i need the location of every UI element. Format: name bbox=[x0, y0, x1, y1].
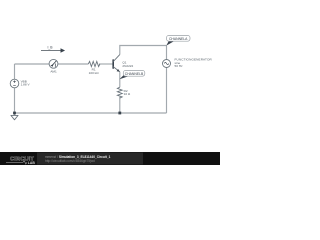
svg-text:50 Hz: 50 Hz bbox=[175, 64, 184, 68]
svg-text:http://circuitlab.com/c/8546gb: http://circuitlab.com/c/8546gb75jwd bbox=[45, 159, 95, 163]
svg-text:10 Ω: 10 Ω bbox=[124, 92, 131, 96]
svg-text:100 kΩ: 100 kΩ bbox=[89, 71, 100, 75]
svg-text:CHANNELB: CHANNELB bbox=[125, 72, 144, 76]
svg-text:CHANNELA: CHANNELA bbox=[169, 37, 188, 41]
svg-text:FUNCTIONGENERATOR: FUNCTIONGENERATOR bbox=[175, 58, 213, 62]
svg-text:1.88 V: 1.88 V bbox=[21, 83, 31, 87]
svg-text:LAB: LAB bbox=[28, 161, 36, 165]
svg-text:2N2222: 2N2222 bbox=[122, 64, 133, 68]
svg-text:AM1: AM1 bbox=[50, 70, 57, 74]
svg-text:I_B: I_B bbox=[47, 45, 53, 49]
